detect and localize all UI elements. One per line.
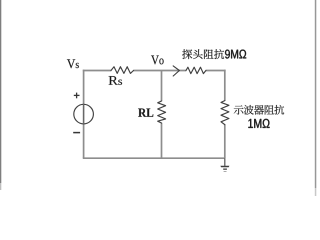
wire from oscilloscope resistor to bottom rail — [224, 124, 226, 158]
wire from node Vs to resistor Rs — [83, 70, 111, 72]
label RL — [138, 109, 153, 117]
wire from node Vo to probe resistor — [162, 70, 187, 72]
resistor RL — [158, 101, 166, 123]
label Vs — [67, 59, 79, 68]
wire left branch from node Vs down through source — [83, 70, 85, 159]
resistor Rs — [111, 67, 134, 74]
wire RL branch from node Vo — [161, 71, 163, 102]
minus sign of source — [73, 132, 80, 134]
resistor probe impedance 9Mohm — [186, 67, 206, 73]
plus sign of source — [74, 93, 80, 99]
label Rs — [109, 76, 122, 85]
value label 9M ohm — [225, 50, 246, 59]
wire from probe resistor to top-right corner — [206, 70, 226, 72]
wire bottom rail — [83, 157, 225, 159]
label Vo — [151, 56, 164, 65]
ground — [220, 166, 229, 172]
voltage source Vs circle — [74, 104, 94, 124]
wire from RL to bottom rail junction — [161, 123, 163, 159]
arrowhead on wire toward probe — [173, 66, 179, 76]
wire ground stub — [224, 158, 226, 166]
label 示波器阻抗 — [234, 105, 284, 115]
wire through source circle — [83, 104, 85, 123]
wire right branch down to oscilloscope resistor — [224, 70, 226, 101]
value label 1M ohm — [248, 119, 269, 128]
resistor oscilloscope impedance 1Mohm — [221, 101, 229, 125]
wire from Rs to node Vo — [133, 70, 161, 72]
label 探头阻抗 — [182, 49, 224, 59]
